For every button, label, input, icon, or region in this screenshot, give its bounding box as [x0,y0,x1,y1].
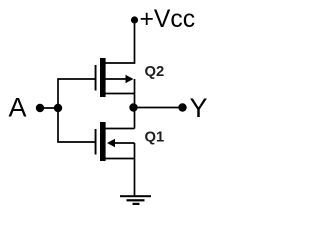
Q1 drain lead [106,128,135,130]
Vcc terminal dot [131,16,138,23]
wire Vcc stem to Q2 drain [106,20,135,63]
Q2 gate plate [95,65,97,91]
wire output node to Y [135,107,183,109]
wire A to gate bus junction [40,107,58,109]
Q1 body lead with arrow [107,139,115,147]
svg-text:Q1: Q1 [145,130,165,146]
terminal A dot [36,104,44,112]
svg-text:+Vcc: +Vcc [140,6,196,33]
wire gate bus to both gates [58,79,95,142]
ground [120,195,151,205]
node output junction dot [129,103,137,111]
Q1 gate plate [95,129,97,155]
Q2 body lead with arrow [106,78,128,80]
ground bar 2 [127,199,145,201]
ground bar 1 [120,195,151,197]
Q1 source lead [106,158,135,160]
junction dot on gate bus [54,104,62,112]
Q2 source lead [106,93,135,95]
wire Q2 source/body to output node [134,79,136,108]
ground bar 3 [133,203,140,205]
transistor Q2 [95,58,135,97]
transistor Q1 [95,122,135,161]
svg-text:Q2: Q2 [145,64,165,80]
svg-text:A: A [9,93,27,123]
wire Q1 source/body to ground [134,143,136,196]
Q1 channel bar [100,122,106,161]
terminal Y dot [178,103,186,111]
wire Q1 drain to output node [134,108,136,129]
svg-text:Y: Y [190,93,208,123]
Q2 channel bar [100,58,106,97]
